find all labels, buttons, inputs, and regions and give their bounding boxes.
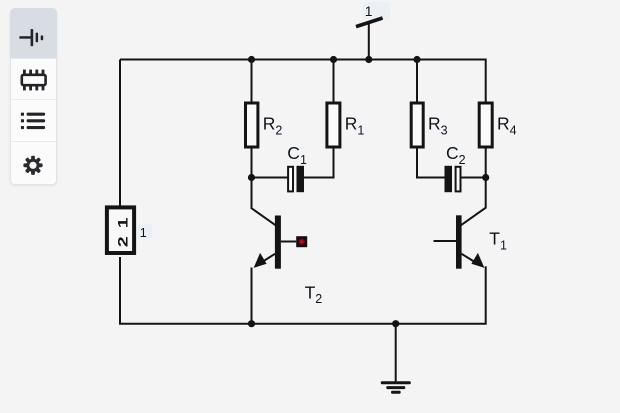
svg-text:1: 1 bbox=[365, 3, 373, 19]
svg-text:1: 1 bbox=[140, 225, 147, 240]
svg-text:1: 1 bbox=[115, 218, 131, 229]
svg-text:T1: T1 bbox=[489, 229, 507, 253]
svg-text:2: 2 bbox=[115, 236, 131, 247]
svg-text:C2: C2 bbox=[446, 143, 466, 167]
svg-text:R3: R3 bbox=[428, 114, 448, 138]
svg-text:C1: C1 bbox=[287, 143, 307, 167]
svg-text:T2: T2 bbox=[305, 282, 323, 306]
svg-text:R1: R1 bbox=[345, 114, 365, 138]
svg-text:R4: R4 bbox=[497, 114, 517, 138]
svg-text:R2: R2 bbox=[263, 114, 283, 138]
